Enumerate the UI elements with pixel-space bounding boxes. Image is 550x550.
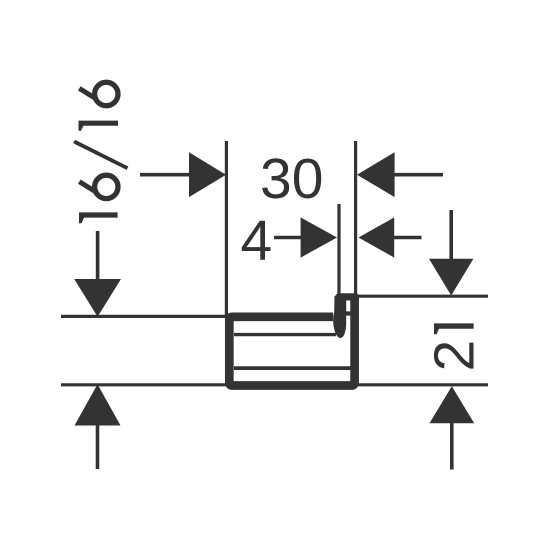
dimension 21 up arrowhead [430,386,475,423]
dimension 30 right arrowhead [357,152,395,197]
bottom-left up arrow tail [96,425,100,469]
dimension 16/16 leader line [96,231,100,281]
dimension 21 label [423,323,487,371]
dimension 21 up arrow tail [450,423,454,470]
extension line left vertical (30 dim, left) [225,141,228,315]
extension line middle vertical (4 dim, left) [337,204,340,294]
extension line right horizontal (21 dim, top) [356,295,488,298]
dimension 16/16 down arrowhead [74,279,121,317]
dimension 30 left arrowhead [189,152,226,197]
dimension 30 right arrow tail [394,173,443,177]
profile inner line lower [234,366,351,370]
dimension 21 down arrowhead [429,259,473,296]
extension line right vertical (30 dim, right) [354,141,357,294]
profile clip slot bottom bridge [344,311,352,315]
dimension 4 right arrow tail [393,236,422,240]
dimension 4 left arrow tail [274,236,302,240]
extension line bottom horizontal [61,383,488,386]
dimension 16/16 label [74,82,127,223]
dimension 4 left arrowhead [301,217,337,257]
svg-text:2: 2 [423,340,487,372]
profile inner line upper [234,333,336,336]
dimension 21 top leader line [449,210,453,259]
dimension 4 right arrowhead [359,217,395,257]
extension line top-left horizontal [61,315,228,318]
profile body outline [229,298,354,386]
bottom-left up arrowhead [75,384,121,425]
profile clip leg and curl [333,296,346,338]
svg-text:4: 4 [241,209,273,273]
profile clip cap [339,293,356,300]
dimension 30 left arrow tail [140,173,191,177]
svg-text:30: 30 [260,147,323,211]
